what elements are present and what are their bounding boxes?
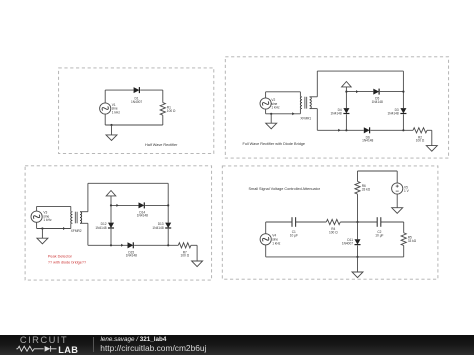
wire bottom rail circuit4 [266,256,404,258]
wire arrow primary bottom circuit3 [63,227,65,230]
svg-text:XFMR2: XFMR2 [71,229,82,233]
ground output circuit3 [192,261,203,267]
voltage source V5 1V [396,171,398,183]
wire arrow mid circuit3 [116,204,118,207]
wire bridge left vertical circuit2 [345,92,347,109]
wire primary left circuit3 [36,206,38,211]
node junctions bridge circuit2 [345,91,347,93]
resistor R6 33 kohm [355,181,360,194]
svg-text:Peak Detector: Peak Detector [48,255,73,259]
wire right vertical R5 circuit4 [403,222,405,233]
svg-text:1N4007: 1N4007 [131,100,142,104]
svg-text:33 kΩ: 33 kΩ [362,188,371,192]
node junction ground tap circuit3 [41,227,43,229]
voltage source V4 [260,234,271,245]
diode D1 1N4007 [134,87,140,93]
svg-text:100 Ω: 100 Ω [329,231,338,235]
wire secondary bottom circuit3 [80,222,88,224]
wire left vertical circuit1 [104,90,106,103]
svg-text:?? with diode bridge??: ?? with diode bridge?? [48,261,86,265]
footer url line [100,343,206,353]
svg-text:1N4148: 1N4148 [152,226,163,230]
svg-text:33 kΩ: 33 kΩ [408,239,417,243]
resistor R7 100 ohm [178,243,191,248]
voltage source V3 [31,211,42,222]
diode D5 1N4148 [373,89,379,95]
svg-text:1N4148: 1N4148 [126,254,137,258]
svg-text:10 µF: 10 µF [290,234,298,238]
transformer XFMR1 [300,97,302,109]
wire bridge bottom rail circuit2 [317,129,364,131]
svg-text:XFMR1: XFMR1 [300,117,311,121]
ground bottom circuit4 [357,257,359,272]
wire bridge right vertical circuit2 [402,71,404,108]
wire secondary top circuit3 [80,211,88,213]
resistor R5 33 kohm [401,233,406,246]
dashed box: Half Wave Rectifier circuit [59,68,214,154]
svg-text:1N4148: 1N4148 [372,100,383,104]
node up-marker circuit2 [345,87,347,92]
wire bridge right vertical circuit3 [167,183,169,222]
svg-text:Small Signal Voltage Controlle: Small Signal Voltage Controlled Attenuat… [249,187,321,191]
diode D12 1N4148 [108,223,114,228]
wire right vertical circuit1 [162,90,164,103]
wire arrow bottom rail circuit3 [121,244,123,247]
capacitor C2 10uF [376,217,378,227]
wire primary bottom circuit3 [37,228,71,230]
node junction bottom circuit4 [356,256,358,258]
diode D11 1N4007 [357,222,359,239]
transformer XFMR2 [71,212,73,224]
node up-marker circuit3 [110,196,112,206]
svg-text:1 kHz: 1 kHz [43,218,52,222]
ground output circuit2 [426,146,437,152]
svg-text:1N4148: 1N4148 [362,139,373,143]
svg-text:Full Wave Rectifier with Diode: Full Wave Rectifier with Diode Bridge [243,142,306,146]
wire R7 to ground circuit3 [191,244,197,246]
circuitlab logo resistor+diode glyph [0,335,95,355]
wire secondary bottom circuit2 [310,108,318,110]
resistor R2 100 ohm [413,128,427,133]
ground primary circuit2 [270,114,272,123]
wire bridge bottom rail circuit3 [88,244,128,246]
wire bottom rail circuit1 [105,124,163,126]
capacitor C1 10uF [291,217,293,227]
wire primary top circuit2 [266,91,301,93]
footer divider [93,337,94,352]
ground V5 circuit4 [396,194,398,208]
svg-text:1 kHz: 1 kHz [272,241,281,245]
svg-text:100 Ω: 100 Ω [181,254,190,258]
node junctions bridge circuit3 [110,204,112,206]
wire primary top circuit3 [37,205,71,207]
svg-text:1 kHz: 1 kHz [112,110,121,114]
svg-text:10 µF: 10 µF [375,234,383,238]
svg-text:Half Wave Rectifier: Half Wave Rectifier [145,143,178,147]
dashed box: Full Wave Rectifier circuit [225,57,448,158]
node junction ground tap circuit2 [270,113,272,115]
svg-text:1N4148: 1N4148 [331,112,342,116]
resistor R4 100 ohm [326,219,340,224]
node junction signal/R6 circuit4 [356,221,358,223]
wire V4 vertical circuit4 [265,222,267,234]
footer bar [0,335,474,355]
wire bridge mid horizontal circuit2 [346,91,373,93]
svg-text:1N4007: 1N4007 [342,242,353,246]
svg-text:100 Ω: 100 Ω [416,139,425,143]
svg-text:100 Ω: 100 Ω [167,109,176,113]
svg-text:1 V: 1 V [404,189,410,193]
wire signal rail circuit4 [266,221,292,223]
diode D14 1N4148 [139,202,145,208]
ground primary circuit3 [41,229,43,239]
wire bridge mid horizontal circuit3 [111,204,139,206]
svg-text:1N4148: 1N4148 [388,112,399,116]
ground circuit1 [111,125,113,135]
node junction ground tap circuit1 [110,124,112,126]
svg-text:1N4148: 1N4148 [137,214,148,218]
circuitlab logo CIRCUIT [20,334,68,345]
voltage source V1 [100,103,111,114]
wire primary left circuit2 [265,92,267,98]
wire secondary top circuit2 [310,96,318,98]
wire arrow mid circuit2 [356,90,358,93]
dashed box: Peak Detector circuit [25,166,212,280]
wire primary bottom circuit2 [266,113,301,115]
diode D6 1N4148 [364,127,370,133]
diode D3 1N4148 [400,108,406,113]
dashed box: Attenuator circuit [222,166,438,279]
wire R2 to ground circuit2 [427,129,432,131]
footer author line [101,336,167,343]
diode D13 1N4148 [165,223,171,228]
wire R6 branch circuit4 [357,171,359,181]
svg-text:1 kHz: 1 kHz [271,106,280,110]
diode D4 1N4148 [343,108,349,113]
svg-text:1N4148: 1N4148 [95,226,106,230]
wire top rail circuit1 [105,89,133,91]
resistor R1 100 ohm [160,103,165,116]
wire bridge left vertical circuit3 [110,205,112,222]
diode D15 1N4148 [128,242,134,248]
voltage source V2 [260,98,271,109]
wire arrow primary bottom circuit2 [292,112,294,115]
wire arrow bottom rail circuit2 [338,129,340,132]
